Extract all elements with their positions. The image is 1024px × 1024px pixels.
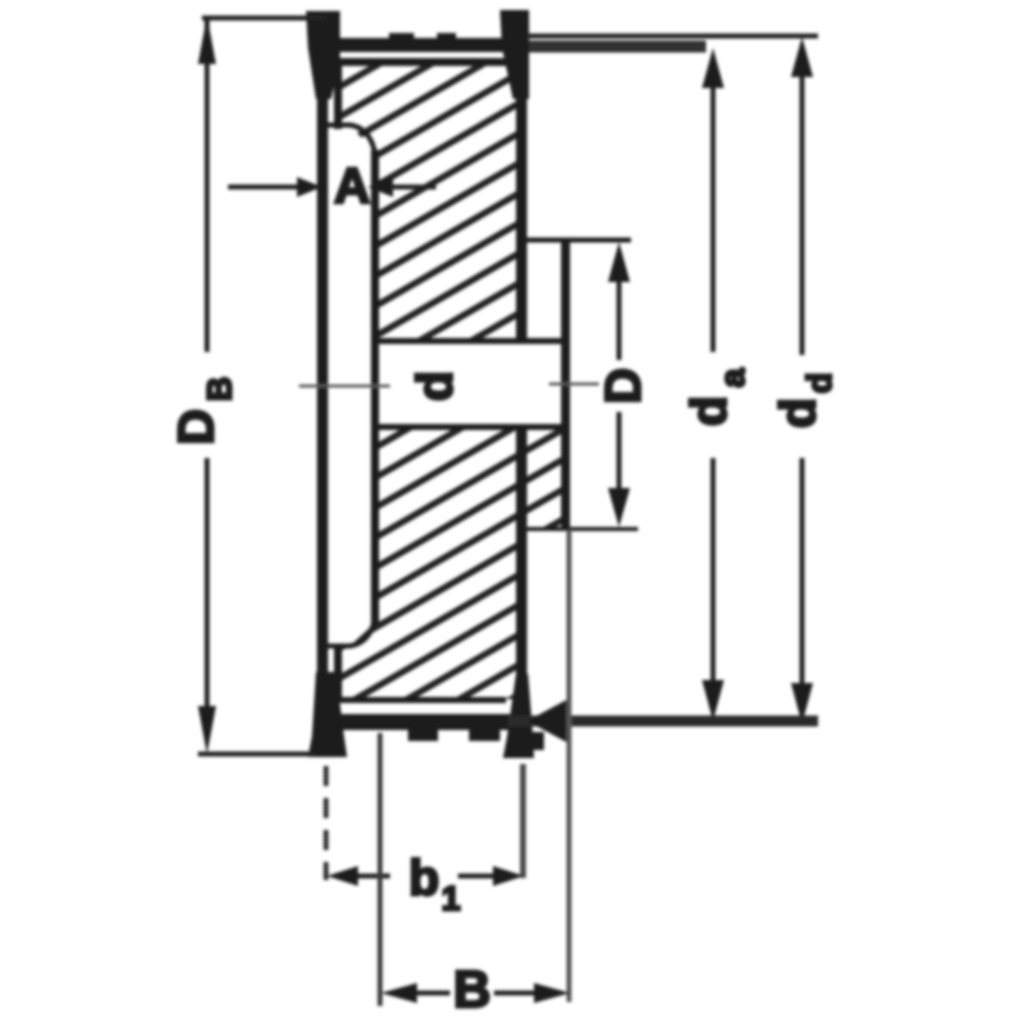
- svg-text:B: B: [201, 377, 239, 402]
- svg-text:1: 1: [442, 880, 461, 918]
- svg-text:d: d: [801, 373, 839, 394]
- svg-text:d: d: [681, 396, 737, 427]
- svg-text:a: a: [714, 367, 752, 387]
- svg-text:d: d: [770, 398, 826, 429]
- svg-text:B: B: [453, 961, 491, 1019]
- svg-text:D: D: [595, 368, 651, 404]
- svg-text:d: d: [407, 371, 463, 402]
- svg-text:D: D: [168, 409, 224, 445]
- svg-text:b: b: [409, 850, 440, 906]
- svg-text:A: A: [334, 158, 370, 214]
